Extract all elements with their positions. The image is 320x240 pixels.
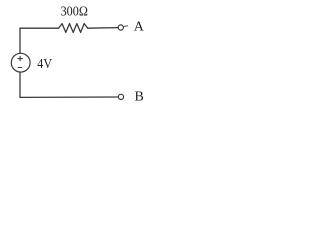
plus sign (18, 56, 22, 60)
wire resistor to terminal A (88, 27, 118, 30)
wire top horizontal left of resistor (20, 27, 59, 29)
terminal B circle (118, 94, 123, 99)
svg-text:A: A (134, 20, 145, 35)
minus sign (18, 67, 22, 69)
wire top-left vertical (19, 28, 21, 53)
stub artifact right of terminal A (124, 25, 128, 28)
svg-text:B: B (135, 89, 144, 104)
svg-text:4V: 4V (37, 57, 52, 72)
resistor R 300ohm zigzag (59, 24, 88, 33)
wire bottom horizontal (20, 96, 118, 98)
voltage source V1 circle (11, 53, 30, 72)
wire source bottom vertical (19, 72, 21, 97)
terminal A circle (118, 25, 123, 30)
svg-text:300Ω: 300Ω (61, 3, 88, 18)
